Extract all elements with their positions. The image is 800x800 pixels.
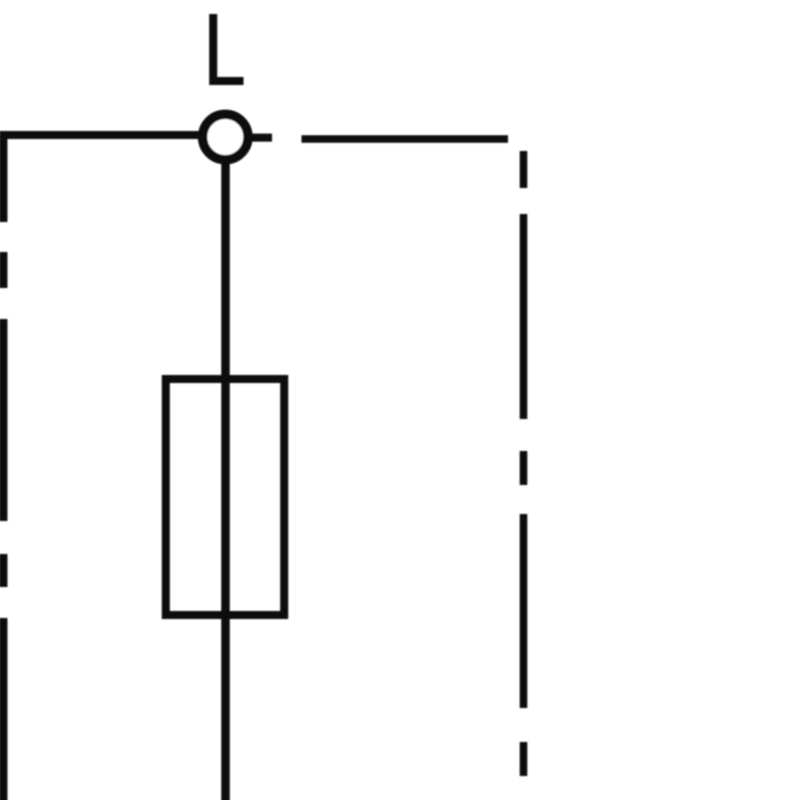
wire: left dash-dot boundary line, long dash 2 (runs off bottom) xyxy=(0,618,7,800)
wire: right dash-dot boundary line, long dash 2 xyxy=(520,514,528,708)
wire: top dash-dot boundary, long horizontal dash xyxy=(302,135,509,143)
wire: left horizontal supply wire with corner into left boundary line xyxy=(3,135,199,222)
wire: right dash-dot boundary line, short dash 3 xyxy=(520,742,528,776)
wire: left dash-dot boundary line, short dash 1 xyxy=(0,252,7,288)
label L (terminal name) xyxy=(213,14,243,81)
wire: short stub right of terminal xyxy=(251,134,272,142)
wire: right dash-dot boundary line, short dash 2 xyxy=(520,451,528,485)
terminal L (circle terminal symbol) xyxy=(203,114,248,159)
wire: right dash-dot boundary line, long dash 1 xyxy=(520,214,528,419)
wire: vertical wire from terminal L down through fuse to bottom edge xyxy=(221,160,230,800)
wire: left dash-dot boundary line, long dash 1 xyxy=(0,319,7,521)
wire: left dash-dot boundary line, short dash 2 xyxy=(0,554,7,587)
wire: right dash-dot boundary line, short dash 1 xyxy=(520,151,528,188)
fuse (IEC rectangle symbol on vertical wire) xyxy=(166,379,284,615)
